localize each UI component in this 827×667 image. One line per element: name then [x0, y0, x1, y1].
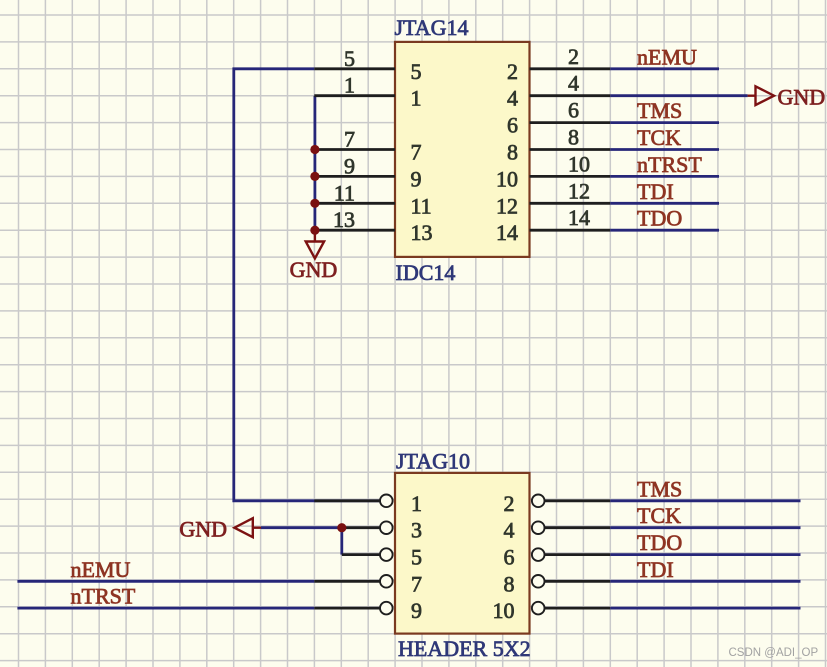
net label TCK (JTAG14 side): [637, 125, 681, 150]
svg-text:TMS: TMS: [637, 476, 682, 501]
svg-text:1: 1: [344, 73, 355, 98]
pin 9 of JTAG14 (left): [314, 153, 421, 191]
svg-text:HEADER 5X2: HEADER 5X2: [398, 636, 531, 661]
svg-text:5: 5: [344, 46, 355, 71]
svg-text:IDC14: IDC14: [396, 260, 456, 285]
value HEADER 5X2: [398, 636, 531, 661]
designator JTAG14: [395, 15, 469, 40]
svg-text:13: 13: [411, 220, 433, 245]
pin 1 of JTAG14 (left): [314, 73, 421, 111]
net label nTRST (JTAG10 pin9): [71, 584, 136, 609]
net label nEMU (JTAG14 side): [637, 44, 697, 69]
svg-text:9: 9: [344, 153, 355, 178]
svg-text:8: 8: [507, 140, 518, 165]
net label TMS (JTAG10 side): [637, 476, 682, 501]
svg-text:TCK: TCK: [637, 125, 681, 150]
pin 10 of JTAG14 (right): [496, 151, 610, 191]
wire: JTAG14 pin10 net nTRST: [610, 175, 719, 178]
wire: junction down to JTAG10 pin5: [340, 528, 343, 555]
ground symbol GND below JTAG14: [290, 230, 338, 282]
svg-text:GND: GND: [290, 257, 338, 282]
pin 4 of JTAG14 (right): [507, 71, 610, 111]
svg-text:nTRST: nTRST: [637, 152, 702, 177]
wire: JTAG14 pin5 to JTAG10 pin1 (net nTRST_route): [234, 69, 381, 501]
designator JTAG10: [396, 448, 470, 473]
net label TDO (JTAG14 side): [637, 206, 682, 231]
pin 14 of JTAG14 (right): [496, 205, 610, 245]
net label TDO (JTAG10 side): [637, 530, 682, 555]
net label TMS (JTAG14 side): [637, 98, 682, 123]
pin 7 of JTAG10 (left, open-circle): [314, 571, 422, 596]
wire: JTAG14 pin12 net TDI: [610, 202, 719, 205]
svg-text:JTAG10: JTAG10: [396, 448, 470, 473]
watermark CSDN @ADI_OP: [729, 647, 819, 659]
wire: net nEMU to JTAG10 pin7: [17, 580, 314, 583]
pin 10 of JTAG10 (right, open-circle): [493, 598, 611, 623]
connector U? JTAG14 body (IDC14): [395, 42, 530, 257]
junction at JTAG10 pin3 (GND tie): [337, 523, 346, 532]
pin 1 of JTAG10 (left, open-circle): [314, 491, 422, 516]
pin 5 of JTAG10 (left, open-circle): [342, 545, 422, 570]
wire: JTAG14 pin8 net TCK: [610, 148, 719, 151]
pin 13 of JTAG14 (left): [314, 207, 432, 245]
svg-text:4: 4: [507, 86, 518, 111]
svg-text:TCK: TCK: [637, 503, 681, 528]
svg-text:TDO: TDO: [637, 206, 682, 231]
junction at JTAG14 pin9 / GND rail: [310, 172, 319, 181]
svg-text:4: 4: [568, 71, 579, 96]
pin 2 of JTAG10 (right, open-circle): [504, 491, 611, 516]
svg-text:12: 12: [496, 193, 518, 218]
pin 6 of JTAG10 (right, open-circle): [504, 545, 611, 570]
wire: GND to JTAG10 pin3: [261, 526, 342, 529]
svg-text:nTRST: nTRST: [71, 584, 136, 609]
pin 12 of JTAG14 (right): [496, 178, 610, 218]
junction at JTAG14 pin11 / GND rail: [310, 199, 319, 208]
wire: JTAG10 pin8 net TDI: [610, 580, 800, 583]
pin 8 of JTAG10 (right, open-circle): [504, 571, 611, 596]
svg-text:9: 9: [411, 166, 422, 191]
pin 6 of JTAG14 (right): [507, 98, 610, 138]
svg-text:1: 1: [411, 86, 422, 111]
svg-text:14: 14: [568, 205, 590, 230]
pin 2 of JTAG14 (right): [507, 44, 610, 84]
svg-text:13: 13: [333, 207, 355, 232]
svg-text:8: 8: [504, 571, 515, 596]
svg-text:7: 7: [411, 140, 422, 165]
svg-text:CSDN @ADI_OP: CSDN @ADI_OP: [729, 647, 819, 659]
svg-text:4: 4: [504, 518, 515, 543]
junction at JTAG14 pin7 / GND rail: [310, 145, 319, 154]
pin 4 of JTAG10 (right, open-circle): [504, 518, 611, 543]
svg-text:10: 10: [496, 166, 518, 191]
svg-text:nEMU: nEMU: [637, 44, 697, 69]
net label TCK (JTAG10 side): [637, 503, 681, 528]
power port GND (right of JTAG14 pin4): [748, 85, 826, 110]
net label nEMU (JTAG10 pin7): [71, 557, 131, 582]
wire: JTAG10 pin4 net TCK: [610, 526, 800, 529]
wire: JTAG14 pin2 net nEMU: [610, 67, 719, 70]
wire: JTAG10 pin2 net TMS: [610, 499, 800, 502]
connector JTAG10 body (HEADER 5X2): [395, 473, 530, 634]
svg-text:14: 14: [496, 220, 518, 245]
pin 8 of JTAG14 (right): [507, 125, 610, 165]
svg-text:5: 5: [411, 59, 422, 84]
svg-text:11: 11: [334, 180, 355, 205]
net label nTRST (JTAG14 side): [637, 152, 702, 177]
pin 11 of JTAG14 (left): [314, 180, 431, 218]
svg-text:nEMU: nEMU: [71, 557, 131, 582]
svg-text:6: 6: [504, 545, 515, 570]
svg-text:9: 9: [411, 598, 422, 623]
wire: JTAG14 pin6 net TMS: [610, 121, 719, 124]
svg-text:1: 1: [411, 491, 422, 516]
power port GND (left of JTAG10 pin3): [179, 517, 261, 542]
net label TDI (JTAG10 side): [637, 557, 674, 582]
svg-text:TDI: TDI: [637, 179, 674, 204]
svg-text:10: 10: [493, 598, 515, 623]
svg-text:7: 7: [344, 127, 355, 152]
svg-text:GND: GND: [778, 85, 826, 110]
wire: JTAG10 pin10 net pin10: [610, 607, 800, 610]
svg-text:TMS: TMS: [637, 98, 682, 123]
wire: JTAG10 pin6 net TDO: [610, 553, 800, 556]
wire: net nTRST to JTAG10 pin9: [17, 607, 314, 610]
svg-text:JTAG14: JTAG14: [395, 15, 469, 40]
svg-text:11: 11: [411, 193, 432, 218]
svg-text:TDO: TDO: [637, 530, 682, 555]
svg-text:2: 2: [507, 59, 518, 84]
svg-text:12: 12: [568, 178, 590, 203]
svg-text:5: 5: [411, 545, 422, 570]
svg-text:10: 10: [568, 151, 590, 176]
svg-text:3: 3: [411, 518, 422, 543]
pin 7 of JTAG14 (left): [314, 127, 421, 165]
svg-text:6: 6: [568, 98, 579, 123]
svg-text:2: 2: [504, 491, 515, 516]
svg-text:TDI: TDI: [637, 557, 674, 582]
pin 5 of JTAG14 (left): [314, 46, 421, 84]
svg-text:7: 7: [411, 571, 422, 596]
pin 9 of JTAG10 (left, open-circle): [314, 598, 422, 623]
wire: JTAG14 pin14 net TDO: [610, 229, 719, 232]
value IDC14: [396, 260, 456, 285]
pin 3 of JTAG10 (left, open-circle): [342, 518, 422, 543]
wire: JTAG14 pin1 down to GND rail (pins 7,9,11,13): [313, 96, 316, 231]
junction at JTAG14 pin13 / GND rail: [310, 226, 319, 235]
svg-text:8: 8: [568, 125, 579, 150]
svg-text:GND: GND: [179, 517, 227, 542]
wire: JTAG14 pin4 to GND power port: [610, 94, 747, 97]
svg-text:6: 6: [507, 113, 518, 138]
net label TDI (JTAG14 side): [637, 179, 674, 204]
svg-text:2: 2: [568, 44, 579, 69]
